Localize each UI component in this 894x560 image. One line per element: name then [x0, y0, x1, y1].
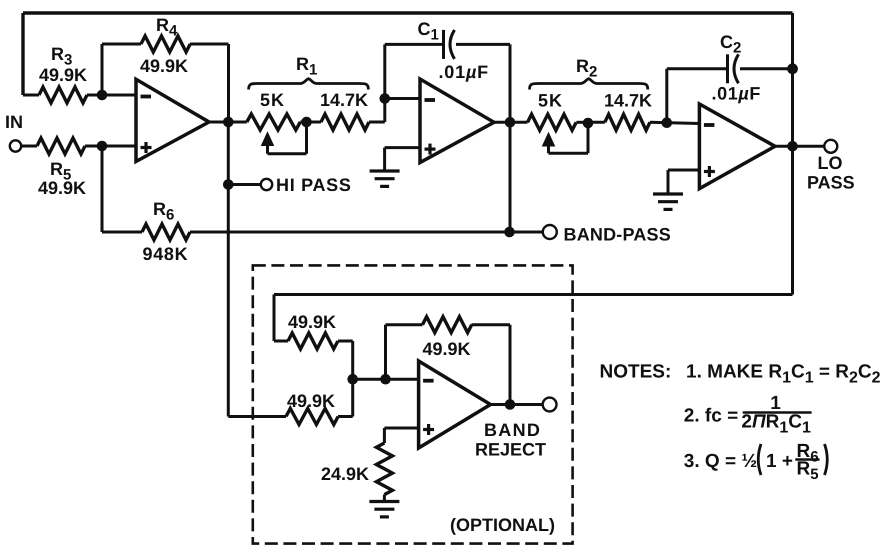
- potentiometer R1 5K section: [247, 114, 300, 130]
- svg-text:3. Q = ½: 3. Q = ½: [684, 451, 757, 472]
- resistor 49.9K (band-reject input from LO PASS): [273, 295, 276, 342]
- potentiometer R2 5K section: [528, 114, 577, 130]
- resistor R2 14.7K section: [588, 121, 605, 124]
- op-amp U4 (band reject): [419, 361, 491, 448]
- svg-text:24.9K: 24.9K: [321, 464, 369, 484]
- resistor R6 948K feedback: [101, 146, 104, 232]
- op-amp U3: [699, 104, 775, 189]
- svg-text:R1: R1: [296, 54, 317, 79]
- node F: U2 output / band-pass node: [505, 117, 516, 128]
- HI PASS output terminal: [261, 179, 272, 190]
- node D: HI PASS tap: [223, 179, 234, 190]
- R2 wiper arrow: [543, 133, 555, 146]
- op-amp U1: [136, 79, 209, 161]
- wire: band-pass vertical: [509, 122, 512, 232]
- svg-text:49.9K: 49.9K: [140, 56, 188, 76]
- capacitor C1 .01uF: [383, 44, 386, 98]
- node K: band-reject summing junction: [347, 374, 358, 385]
- svg-text:BAND: BAND: [484, 420, 541, 440]
- R1 wiper arrow: [262, 133, 274, 146]
- resistor R4 49.9K feedback: [101, 44, 104, 95]
- resistor 49.9K (band-reject input from HI PASS): [286, 409, 338, 425]
- BAND PASS output terminal: [543, 225, 557, 239]
- svg-text:2. fc =: 2. fc =: [684, 406, 738, 427]
- wire: right vertical from top wire down to long bottom feedback: [791, 13, 794, 295]
- wire: U4 output: [491, 403, 544, 406]
- svg-text:14.7K: 14.7K: [604, 91, 652, 111]
- svg-text:NOTES:: NOTES:: [600, 362, 672, 383]
- svg-text:1 +: 1 +: [766, 451, 793, 472]
- svg-text:(OPTIONAL): (OPTIONAL): [450, 515, 555, 535]
- wire: U3 + input to ground: [668, 169, 699, 172]
- wire: U2 + input to ground: [385, 146, 420, 149]
- LO PASS output terminal: [824, 140, 837, 153]
- svg-text:C2: C2: [720, 32, 741, 57]
- node B: op-amp U1 non-inverting input junction: [97, 141, 108, 152]
- node H: C2 / U3 inverting input junction: [662, 117, 673, 128]
- svg-text:49.9K: 49.9K: [38, 178, 86, 198]
- resistor 24.9K: [384, 427, 418, 430]
- svg-text:5K: 5K: [538, 91, 563, 111]
- node G: band-pass tap joins R6: [504, 227, 515, 238]
- node: R1 wiper junction: [301, 117, 312, 128]
- wire: U1 output to node: [209, 121, 247, 124]
- wire: U2 output: [494, 121, 528, 124]
- node J: LO PASS node: [787, 141, 798, 152]
- svg-text:5K: 5K: [260, 90, 285, 110]
- svg-text:R4: R4: [156, 15, 178, 40]
- svg-text:IN: IN: [5, 112, 23, 132]
- node I: C2 to LO PASS feedback vertical: [787, 63, 798, 74]
- resistor R1 14.7K section: [307, 121, 322, 124]
- wire: hi-pass vertical down to band-reject input: [227, 122, 230, 417]
- resistor R3 49.9K: [23, 94, 39, 97]
- svg-text:1. MAKE R1C1 = R2C2: 1. MAKE R1C1 = R2C2: [686, 362, 881, 387]
- wire: left vertical from top wire down to R3: [21, 13, 24, 95]
- node E: U2 inverting input / C1 junction: [380, 93, 391, 104]
- svg-text:PASS: PASS: [807, 173, 855, 193]
- svg-text:49.9K: 49.9K: [288, 312, 336, 332]
- svg-text:49.9K: 49.9K: [287, 391, 335, 411]
- ground at U3 + input: [653, 192, 683, 195]
- svg-text:REJECT: REJECT: [475, 440, 546, 460]
- svg-text:BAND-PASS: BAND-PASS: [564, 225, 671, 245]
- ground at U2 + input: [370, 169, 400, 172]
- dashed box (optional band-reject section): [253, 265, 573, 543]
- svg-text:14.7K: 14.7K: [320, 90, 368, 110]
- svg-text:HI PASS: HI PASS: [276, 175, 352, 195]
- svg-text:49.9K: 49.9K: [39, 65, 87, 85]
- top feedback wire (LO PASS to R3): [23, 11, 793, 14]
- wire jog up to U2 inverting input: [383, 99, 386, 123]
- wire: long feedback from LO PASS down-left into optional box: [274, 293, 793, 296]
- svg-text:2ΠR1C1: 2ΠR1C1: [741, 412, 811, 437]
- svg-text:C1: C1: [418, 19, 439, 44]
- svg-text:R2: R2: [576, 56, 597, 81]
- op-amp U2: [420, 79, 494, 163]
- resistor 49.9K (band-reject feedback): [384, 325, 387, 380]
- ground below 24.9K: [369, 500, 399, 503]
- svg-text:.01µF: .01µF: [712, 84, 761, 104]
- resistor R5 49.9K: [21, 145, 37, 148]
- svg-text:R6: R6: [153, 199, 174, 224]
- node C: U1 output / hi-pass node: [223, 117, 234, 128]
- node A: op-amp U1 inverting input junction: [97, 90, 108, 101]
- svg-text:LO: LO: [818, 153, 843, 173]
- svg-text:49.9K: 49.9K: [423, 339, 471, 359]
- node L: feedback tap junction: [380, 374, 391, 385]
- wire to HI PASS terminal: [228, 183, 260, 186]
- node: R2 wiper junction: [583, 118, 594, 129]
- node M: band-reject output node: [505, 399, 516, 410]
- BAND REJECT output terminal: [543, 398, 557, 412]
- svg-text:948K: 948K: [143, 244, 189, 264]
- wire: U3 output to LO PASS: [775, 145, 825, 148]
- capacitor C2 .01uF: [665, 69, 668, 123]
- svg-text:.01µF: .01µF: [439, 62, 489, 82]
